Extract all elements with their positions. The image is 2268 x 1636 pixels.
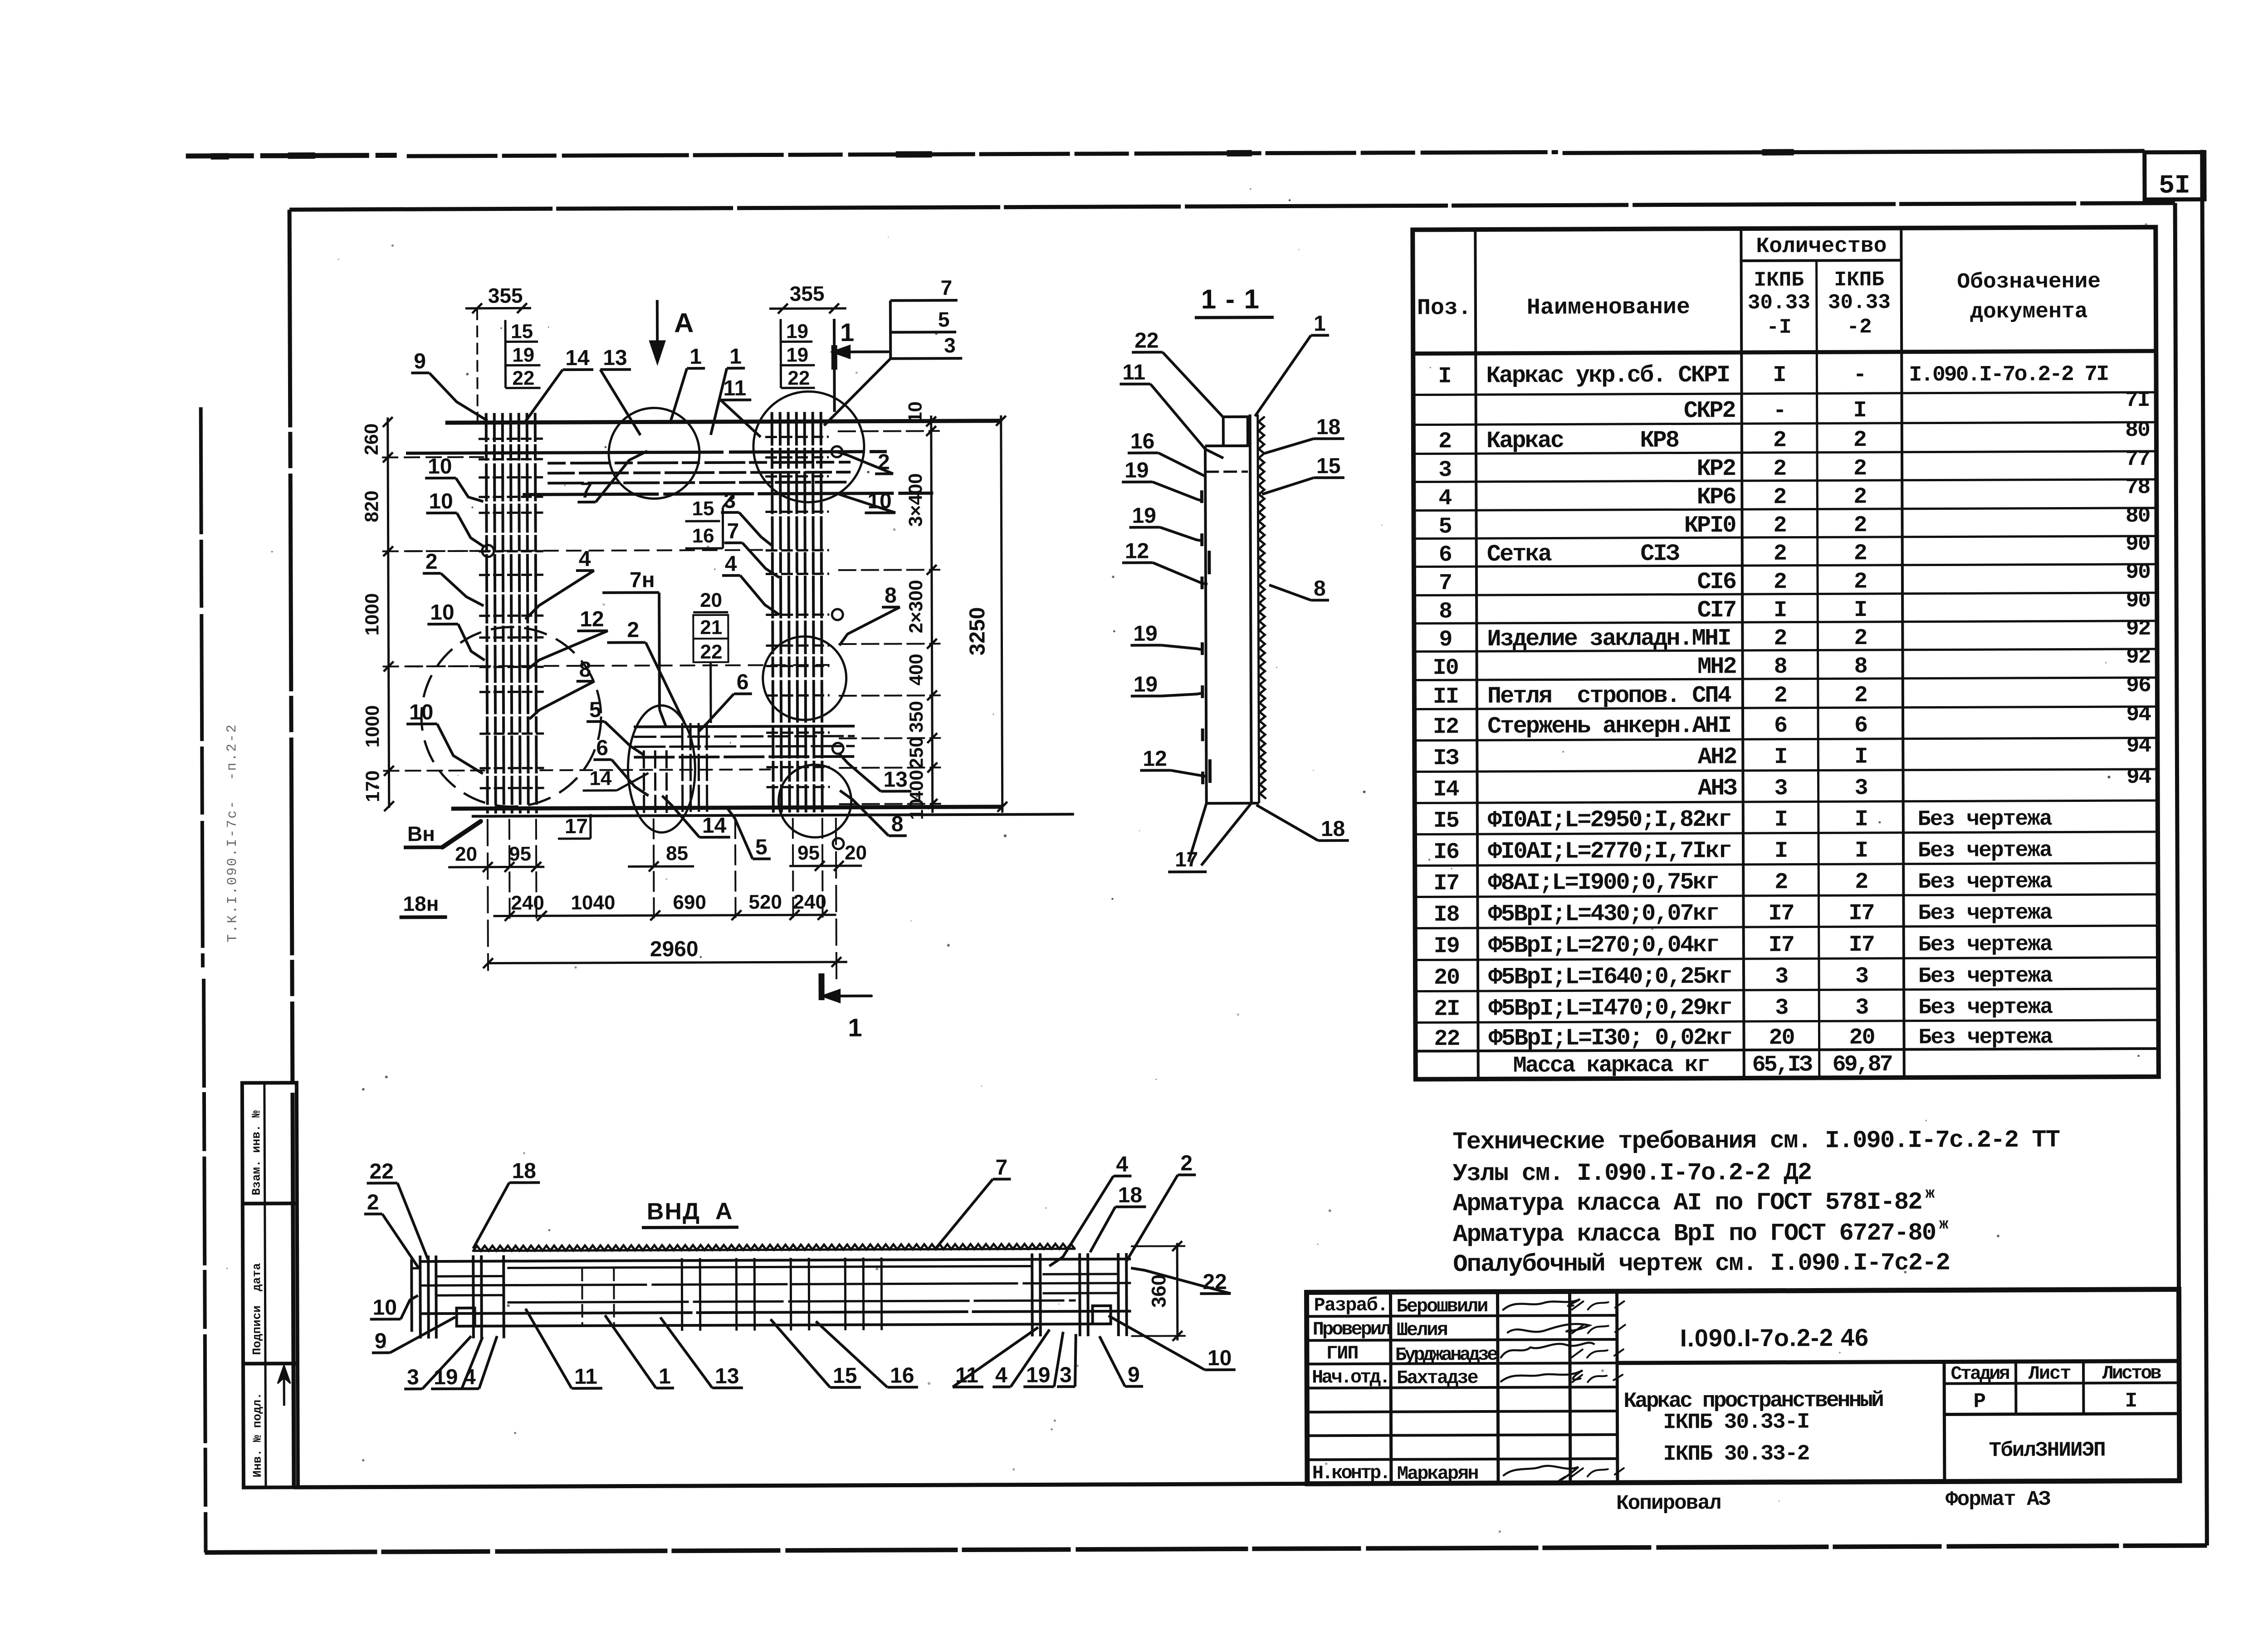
- svg-text:2: 2: [1854, 569, 1867, 595]
- svg-text:КР2: КР2: [1696, 455, 1735, 482]
- plan corner mark Вн: [404, 821, 481, 848]
- section callout 19b: [1129, 503, 1202, 541]
- svg-text:Без чертежа: Без чертежа: [1918, 995, 2053, 1020]
- svg-text:400: 400: [905, 654, 927, 685]
- svg-text:95: 95: [797, 842, 820, 864]
- svg-text:І: І: [1773, 362, 1785, 388]
- svg-text:3: 3: [1855, 995, 1868, 1021]
- svg-text:1040: 1040: [571, 892, 615, 914]
- viewA callout 3 bottom: [1057, 1334, 1076, 1387]
- left margin stamp column: [242, 1083, 298, 1487]
- svg-text:Н.контр.: Н.контр.: [1312, 1462, 1389, 1485]
- svg-text:І: І: [1854, 597, 1867, 623]
- svg-text:7І: 7І: [2125, 388, 2150, 413]
- svg-text:10: 10: [904, 401, 926, 423]
- svg-text:3: 3: [1775, 964, 1788, 990]
- svg-text:355: 355: [790, 282, 825, 305]
- svg-text:1: 1: [729, 345, 742, 369]
- svg-text:9: 9: [375, 1329, 387, 1353]
- plan bottom dims row2: [493, 891, 836, 921]
- svg-text:18: 18: [1118, 1183, 1143, 1207]
- svg-text:17: 17: [565, 814, 588, 838]
- svg-text:15: 15: [1316, 454, 1341, 478]
- svg-text:2: 2: [1854, 625, 1867, 651]
- plan overall dim 3250: [965, 415, 1007, 813]
- svg-text:22: 22: [787, 367, 810, 389]
- plan view: cage bottom chord: [451, 806, 1074, 816]
- plan label stack 15/19/22: [505, 320, 541, 389]
- viewA callout 1 bottom: [605, 1315, 674, 1389]
- svg-text:ж: ж: [1939, 1216, 1949, 1233]
- svg-text:6: 6: [1439, 542, 1452, 568]
- plan callout 10 L1: [425, 454, 483, 502]
- svg-text:17: 17: [1175, 847, 1198, 871]
- svg-text:Бурджанадзе: Бурджанадзе: [1395, 1344, 1498, 1366]
- svg-text:Разраб.: Разраб.: [1314, 1294, 1388, 1317]
- svg-text:9: 9: [414, 349, 426, 373]
- drawing frame (inner border): [289, 203, 2180, 1487]
- svg-text:19: 19: [786, 344, 808, 366]
- svg-text:Изделие закладн.МНІ: Изделие закладн.МНІ: [1487, 625, 1730, 653]
- svg-text:21: 21: [700, 616, 722, 639]
- plan callout 10 right: [837, 489, 895, 513]
- svg-text:8: 8: [1774, 654, 1787, 680]
- title block texts: [1312, 1292, 2162, 1485]
- svg-text:94: 94: [2126, 703, 2151, 727]
- svg-text:6: 6: [1854, 713, 1867, 739]
- svg-text:Инв. № подл.: Инв. № подл.: [250, 1392, 264, 1477]
- svg-text:І8: І8: [1433, 902, 1459, 928]
- svg-text:15: 15: [511, 320, 533, 342]
- plan callout 14 bottom: [662, 796, 730, 838]
- svg-text:2: 2: [1774, 626, 1786, 652]
- svg-text:20: 20: [845, 842, 867, 864]
- plan callout 11: [720, 376, 760, 437]
- svg-text:22: 22: [1134, 329, 1159, 353]
- viewA callout 11 bottom: [526, 1309, 602, 1389]
- svg-text:94: 94: [2126, 734, 2151, 758]
- section callout 19a: [1122, 458, 1203, 502]
- svg-text:19: 19: [1134, 673, 1158, 697]
- svg-text:10: 10: [409, 700, 434, 724]
- viewA callout 19 bottom: [1023, 1332, 1063, 1387]
- svg-text:2: 2: [1854, 541, 1867, 566]
- svg-text:30.33: 30.33: [1828, 291, 1891, 314]
- plan callout 4 interior left: [525, 547, 594, 620]
- viewA callout 7 top: [935, 1156, 1011, 1249]
- svg-text:15: 15: [833, 1364, 857, 1388]
- svg-text:СІ7: СІ7: [1697, 597, 1736, 624]
- svg-text:I: I: [1438, 364, 1451, 390]
- plan callout 7н: [602, 568, 666, 728]
- svg-text:2: 2: [1773, 456, 1786, 482]
- svg-text:І: І: [2125, 1389, 2137, 1413]
- svg-text:1: 1: [659, 1364, 671, 1388]
- svg-text:Ф5ВрІ;L=270;0,04кг: Ф5ВрІ;L=270;0,04кг: [1488, 932, 1719, 959]
- svg-text:92: 92: [2126, 617, 2151, 641]
- svg-text:Без чертежа: Без чертежа: [1918, 807, 2052, 832]
- svg-text:5: 5: [755, 835, 767, 860]
- technical notes: [1452, 1127, 2060, 1279]
- plan callout 2 right: [837, 450, 893, 474]
- plan callout 17 box: [558, 814, 591, 839]
- svg-text:Т.К.І.090.І-7с- -п.2-2: Т.К.І.090.І-7с- -п.2-2: [225, 723, 241, 942]
- section callout 18a: [1264, 415, 1344, 454]
- section callout 18b: [1256, 805, 1349, 841]
- svg-text:1000: 1000: [361, 593, 382, 636]
- parts table rows: [1413, 360, 2159, 1079]
- svg-text:5: 5: [589, 698, 601, 722]
- svg-text:Масса каркаса кг: Масса каркаса кг: [1513, 1052, 1709, 1079]
- svg-text:69,87: 69,87: [1833, 1052, 1892, 1078]
- section callout 8: [1269, 576, 1329, 601]
- svg-text:Каркас КР8: Каркас КР8: [1486, 427, 1679, 454]
- svg-text:Шелия: Шелия: [1397, 1319, 1447, 1341]
- svg-text:4: 4: [464, 1365, 476, 1389]
- svg-text:80: 80: [2126, 504, 2150, 528]
- svg-text:65,ІЗ: 65,ІЗ: [1752, 1052, 1812, 1078]
- plan view: cage second chord: [406, 452, 887, 454]
- svg-text:Стержень анкерн.АНІ: Стержень анкерн.АНІ: [1487, 713, 1730, 740]
- sheet outer left edge: [201, 407, 206, 1553]
- svg-text:3: 3: [944, 333, 956, 357]
- svg-text:240: 240: [511, 892, 544, 914]
- plan view: cage top chord: [445, 421, 1001, 423]
- svg-text:Формат АЗ: Формат АЗ: [1945, 1488, 2050, 1512]
- svg-text:18: 18: [512, 1159, 536, 1183]
- svg-text:І6: І6: [1433, 840, 1459, 865]
- svg-text:Количество: Количество: [1756, 234, 1887, 259]
- svg-text:2: 2: [1854, 683, 1867, 708]
- plan callout 8 interior: [529, 658, 595, 719]
- plan callout 5 middle: [587, 698, 644, 755]
- svg-text:1: 1: [848, 1013, 862, 1042]
- viewA callout 10 R: [1109, 1315, 1236, 1371]
- section callout 22: [1132, 328, 1223, 418]
- plan view: top bar band: [523, 462, 933, 494]
- svg-text:-: -: [1773, 398, 1786, 424]
- plan left dim column: [361, 417, 485, 811]
- svg-text:20: 20: [455, 843, 477, 865]
- svg-text:8: 8: [891, 812, 904, 836]
- svg-text:3: 3: [1438, 457, 1451, 483]
- svg-text:І.090.І-7о.2-2 46: І.090.І-7о.2-2 46: [1680, 1324, 1869, 1352]
- viewA callout 2 TL: [364, 1190, 419, 1268]
- svg-text:2: 2: [1774, 569, 1786, 595]
- plan label stack 20/21/22: [693, 589, 728, 723]
- svg-text:7: 7: [995, 1156, 1007, 1180]
- svg-text:8: 8: [579, 658, 591, 682]
- plan dim 355 left: [465, 283, 532, 429]
- plan callout 7b interior: [724, 519, 779, 577]
- svg-text:12: 12: [580, 607, 604, 631]
- plan dim 355 right: [769, 282, 846, 314]
- plan callout 13 top: [600, 346, 640, 435]
- svg-text:2: 2: [1853, 513, 1866, 538]
- svg-text:19: 19: [1133, 622, 1158, 646]
- svg-text:І: І: [1774, 838, 1787, 864]
- plan callout 6 left: [593, 736, 648, 796]
- parts table frame: [1413, 227, 2159, 1079]
- svg-text:2: 2: [1774, 541, 1786, 567]
- svg-text:3: 3: [1775, 995, 1788, 1021]
- svg-text:11: 11: [1122, 361, 1145, 385]
- plan callout 6 right: [698, 670, 752, 732]
- svg-text:250: 250: [905, 737, 927, 768]
- scan speckles: [211, 146, 2152, 1538]
- svg-text:85: 85: [666, 842, 688, 864]
- viewA callout 4 TR: [1049, 1153, 1132, 1266]
- svg-text:ІКПБ 30.33-2: ІКПБ 30.33-2: [1663, 1442, 1809, 1467]
- svg-text:Петля стропов. СП4: Петля стропов. СП4: [1487, 682, 1731, 710]
- svg-text:Арматура класса ВрІ по ГОСТ 67: Арматура класса ВрІ по ГОСТ 6727-80: [1453, 1220, 1936, 1249]
- svg-text:А: А: [674, 308, 694, 338]
- svg-text:2: 2: [1180, 1151, 1193, 1175]
- plan callout 10 L2: [426, 489, 484, 547]
- svg-text:І0: І0: [1433, 655, 1458, 681]
- svg-text:Без чертежа: Без чертежа: [1918, 901, 2052, 926]
- view A beam: [411, 1244, 1131, 1339]
- plan view: left bar column: [479, 413, 544, 813]
- svg-text:15: 15: [692, 498, 714, 520]
- svg-text:2: 2: [627, 618, 639, 642]
- svg-text:МН2: МН2: [1697, 654, 1736, 680]
- svg-text:І7: І7: [1848, 901, 1874, 927]
- plan corner mark 18н: [399, 892, 447, 917]
- svg-text:90: 90: [2126, 560, 2150, 585]
- svg-text:19: 19: [1124, 459, 1149, 483]
- svg-text:3250: 3250: [965, 607, 989, 655]
- svg-text:22: 22: [700, 641, 722, 663]
- svg-text:80: 80: [2125, 418, 2150, 443]
- svg-text:7: 7: [941, 276, 953, 299]
- svg-text:22: 22: [512, 367, 534, 389]
- svg-text:16: 16: [692, 525, 714, 547]
- svg-text:11: 11: [574, 1365, 597, 1389]
- viewA callout 10 L: [370, 1295, 418, 1319]
- svg-text:Подписи дата: Подписи дата: [250, 1263, 264, 1355]
- section 1-1 title: [1195, 284, 1274, 318]
- svg-text:20: 20: [1434, 965, 1459, 991]
- plan callout 3 interior: [721, 488, 772, 546]
- svg-text:5: 5: [1438, 514, 1451, 540]
- plan callout 4 interior right: [722, 552, 779, 615]
- plan top-right callout bracket 7/5/3: [824, 276, 963, 425]
- svg-text:3: 3: [1060, 1363, 1072, 1387]
- svg-text:92: 92: [2126, 645, 2151, 669]
- svg-text:ІКПБ: ІКПБ: [1754, 269, 1804, 292]
- svg-text:ФІ0АІ;L=2770;І,7Ікг: ФІ0АІ;L=2770;І,7Ікг: [1488, 838, 1731, 865]
- svg-text:78: 78: [2126, 475, 2150, 500]
- sheet outer bottom edge: [205, 1545, 2207, 1552]
- svg-text:690: 690: [673, 891, 706, 913]
- svg-text:документа: документа: [1970, 299, 2087, 324]
- svg-text:10: 10: [429, 489, 453, 513]
- svg-text:І7: І7: [1849, 932, 1874, 958]
- svg-text:-2: -2: [1847, 315, 1872, 339]
- svg-text:3: 3: [1855, 776, 1867, 801]
- svg-text:І4: І4: [1433, 777, 1459, 803]
- svg-text:І7: І7: [1769, 933, 1794, 958]
- svg-text:І: І: [1854, 744, 1867, 770]
- svg-text:94: 94: [2126, 765, 2151, 790]
- section callout 11: [1119, 360, 1223, 459]
- svg-text:І.090.І-7о.2-2 7І: І.090.І-7о.2-2 7І: [1909, 362, 2108, 388]
- svg-text:10: 10: [430, 601, 455, 625]
- svg-text:ж: ж: [1926, 1186, 1935, 1203]
- viewA callout 22 TL: [367, 1159, 428, 1259]
- svg-text:Опалубочный чертеж см. І.090.І: Опалубочный чертеж см. І.090.І-7с2-2: [1453, 1249, 1950, 1279]
- svg-text:ІКПБ: ІКПБ: [1834, 268, 1884, 292]
- svg-text:13: 13: [883, 767, 908, 791]
- svg-text:19: 19: [512, 344, 534, 366]
- svg-text:16: 16: [890, 1363, 914, 1387]
- view A title: [642, 1198, 738, 1228]
- svg-text:Технические требования см. І.0: Технические требования см. І.090.І-7с.2-…: [1452, 1127, 2060, 1157]
- plan callout 10 L4: [406, 700, 483, 774]
- svg-text:7: 7: [1439, 571, 1452, 596]
- svg-text:ФІ0АІ;L=2950;І,82кг: ФІ0АІ;L=2950;І,82кг: [1488, 806, 1731, 834]
- svg-text:3: 3: [1774, 776, 1787, 801]
- plan callout 2 left: [423, 550, 484, 606]
- svg-text:10: 10: [906, 799, 927, 820]
- faint inventory number (rotated): [225, 723, 241, 942]
- plan view: detail circles: [420, 391, 865, 839]
- svg-text:1000: 1000: [362, 705, 383, 748]
- sheet outer right edge: [2202, 150, 2207, 1545]
- svg-text:І: І: [1774, 807, 1787, 833]
- svg-text:Каркас укр.сб. СКРІ: Каркас укр.сб. СКРІ: [1486, 362, 1729, 390]
- svg-text:350: 350: [905, 701, 927, 733]
- svg-text:Ф5ВрІ;L=430;0,07кг: Ф5ВрІ;L=430;0,07кг: [1488, 900, 1718, 928]
- svg-text:Листов: Листов: [2102, 1363, 2161, 1384]
- svg-text:6: 6: [596, 736, 608, 760]
- svg-text:19: 19: [786, 320, 808, 342]
- svg-text:7н: 7н: [630, 568, 655, 592]
- svg-text:2×300: 2×300: [905, 580, 926, 633]
- svg-text:10: 10: [428, 454, 452, 479]
- svg-text:360: 360: [1148, 1275, 1170, 1308]
- svg-text:6: 6: [737, 670, 749, 694]
- sheet outer top edge: [186, 149, 2145, 158]
- viewA callout 22 R: [1131, 1268, 1231, 1294]
- svg-text:КРІ0: КРІ0: [1684, 512, 1736, 539]
- svg-text:-І: -І: [1766, 316, 1791, 339]
- sheet number box 51: [2145, 152, 2204, 200]
- svg-text:АН2: АН2: [1698, 744, 1737, 771]
- svg-text:260: 260: [361, 423, 382, 455]
- svg-text:4: 4: [579, 547, 591, 571]
- plan callout 5 bottom: [728, 809, 771, 859]
- plan callout 8 bottom-right: [840, 790, 907, 836]
- svg-text:Без чертежа: Без чертежа: [1918, 1025, 2053, 1050]
- svg-text:18: 18: [1321, 817, 1345, 841]
- svg-text:І: І: [1855, 807, 1867, 833]
- svg-text:2: 2: [1853, 484, 1866, 510]
- title block signatures: [1501, 1299, 1626, 1481]
- plan view: middle bottom band: [634, 723, 855, 816]
- svg-text:Без чертежа: Без чертежа: [1918, 964, 2053, 989]
- plan right dim column segments: [838, 401, 941, 820]
- svg-text:170: 170: [362, 770, 383, 802]
- svg-text:4: 4: [995, 1363, 1007, 1387]
- svg-text:2: 2: [1853, 456, 1866, 482]
- svg-text:Ф5ВрІ;L=І470;0,29кг: Ф5ВрІ;L=І470;0,29кг: [1488, 995, 1731, 1022]
- plan callout 1a: [670, 345, 705, 424]
- svg-text:4: 4: [1438, 486, 1452, 512]
- svg-text:Р: Р: [1973, 1390, 1986, 1413]
- plan callout 9: [411, 349, 488, 421]
- viewA callout 4 bottom: [992, 1329, 1050, 1387]
- svg-text:1: 1: [840, 318, 854, 347]
- plan callout 14 top: [524, 346, 593, 423]
- svg-text:І7: І7: [1433, 871, 1459, 897]
- svg-text:1 - 1: 1 - 1: [1201, 284, 1260, 314]
- svg-text:8: 8: [1854, 654, 1867, 680]
- svg-text:І7: І7: [1768, 901, 1794, 927]
- svg-text:Ф5ВрІ;L=І30; 0,02кг: Ф5ВрІ;L=І30; 0,02кг: [1488, 1025, 1731, 1052]
- viewA callout 13 bottom: [660, 1317, 743, 1389]
- svg-text:Ф5ВрІ;L=І640;0,25кг: Ф5ВрІ;L=І640;0,25кг: [1488, 963, 1731, 991]
- svg-text:АНЗ: АНЗ: [1698, 775, 1737, 802]
- svg-text:СКР2: СКР2: [1684, 397, 1735, 424]
- svg-text:1: 1: [689, 345, 702, 369]
- plan overall dim 2960: [483, 818, 847, 982]
- svg-text:ІКПБ 30.33-І: ІКПБ 30.33-І: [1663, 1410, 1809, 1435]
- plan callout 14 mid-low: [582, 767, 648, 791]
- svg-text:11: 11: [723, 376, 746, 400]
- svg-text:6: 6: [1774, 713, 1787, 739]
- svg-text:520: 520: [748, 891, 782, 913]
- svg-text:Поз.: Поз.: [1417, 295, 1471, 321]
- svg-text:2: 2: [425, 550, 438, 574]
- viewA callout 3 bottom: [404, 1336, 471, 1390]
- svg-text:Лист: Лист: [2028, 1363, 2071, 1384]
- plan label stack 19/19/22 right: [781, 319, 815, 389]
- section callout 17: [1168, 847, 1207, 872]
- svg-text:18н: 18н: [403, 892, 439, 915]
- svg-text:І2: І2: [1433, 714, 1458, 740]
- section callout 19d: [1131, 672, 1202, 697]
- plan bottom dims row1: [448, 842, 867, 872]
- svg-text:2: 2: [1773, 428, 1786, 454]
- view arrow A: [650, 300, 694, 363]
- svg-text:Маркарян: Маркарян: [1397, 1463, 1478, 1485]
- plan bottom dim extension lines: [509, 818, 823, 919]
- svg-text:20: 20: [1849, 1025, 1874, 1051]
- svg-text:13: 13: [715, 1364, 739, 1388]
- svg-text:3×400: 3×400: [904, 473, 926, 527]
- svg-text:2: 2: [367, 1191, 379, 1215]
- svg-text:77: 77: [2125, 447, 2150, 472]
- svg-text:ІІ: ІІ: [1433, 684, 1458, 710]
- svg-text:3: 3: [723, 489, 736, 513]
- svg-text:СІ6: СІ6: [1697, 569, 1736, 596]
- svg-text:10: 10: [1207, 1346, 1232, 1370]
- svg-text:2: 2: [1773, 484, 1786, 510]
- svg-text:1: 1: [1314, 312, 1326, 336]
- svg-text:355: 355: [488, 283, 523, 307]
- section callout 19c: [1130, 621, 1201, 650]
- svg-text:9: 9: [1128, 1363, 1140, 1387]
- svg-text:7: 7: [580, 479, 592, 503]
- svg-text:16: 16: [1130, 430, 1155, 454]
- svg-text:Без чертежа: Без чертежа: [1918, 933, 2053, 957]
- plan callout 1b: [710, 345, 745, 435]
- plan callout 2 middle: [607, 618, 684, 723]
- viewA callout 15 bottom: [771, 1319, 861, 1388]
- plan callout 8 right: [839, 583, 900, 645]
